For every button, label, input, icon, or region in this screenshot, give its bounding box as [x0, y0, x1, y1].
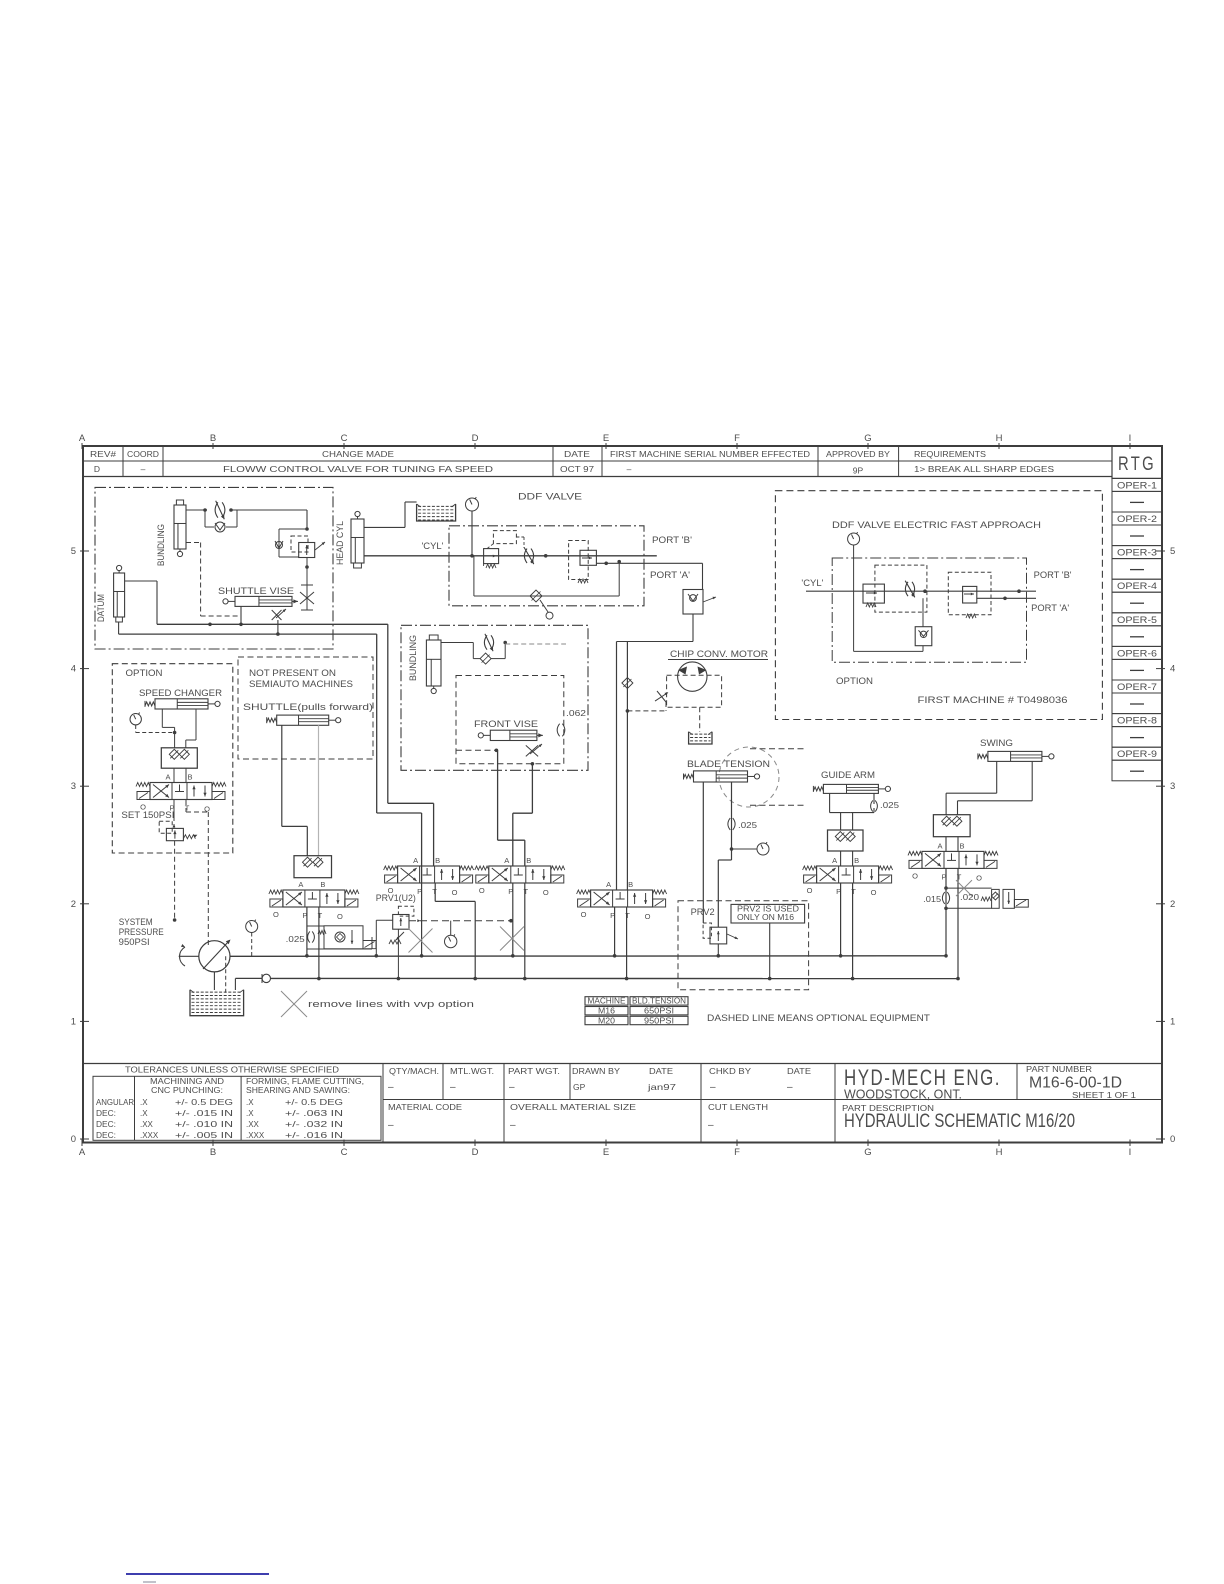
svg-text:A: A [832, 856, 837, 865]
svg-text:DATE: DATE [787, 1067, 811, 1076]
svg-text:T: T [185, 804, 190, 813]
svg-text:WOODSTOCK, ONT.: WOODSTOCK, ONT. [844, 1087, 962, 1102]
svg-text:OPER-3: OPER-3 [1117, 548, 1157, 558]
svg-text:F: F [734, 1147, 740, 1158]
svg-text:A: A [165, 773, 170, 782]
svg-text:–: – [450, 1082, 456, 1093]
svg-text:2: 2 [71, 899, 76, 910]
svg-text:SWING: SWING [980, 738, 1013, 749]
svg-text:B: B [187, 773, 192, 782]
svg-text:OPER-2: OPER-2 [1117, 514, 1157, 524]
svg-text:NOT PRESENT ON: NOT PRESENT ON [249, 668, 336, 678]
svg-text:RTG: RTG [1118, 454, 1156, 475]
svg-text:.XXX: .XXX [246, 1131, 265, 1140]
svg-text:CUT LENGTH: CUT LENGTH [708, 1103, 768, 1112]
svg-text:–: – [509, 1082, 515, 1093]
svg-text:DATE: DATE [649, 1067, 673, 1076]
svg-text:3: 3 [1170, 781, 1175, 792]
svg-text:A: A [413, 856, 418, 865]
svg-text:OPER-4: OPER-4 [1117, 581, 1157, 591]
svg-text:SHEET 1 OF 1: SHEET 1 OF 1 [1072, 1091, 1137, 1100]
svg-text:CHANGE MADE: CHANGE MADE [322, 449, 394, 459]
svg-text:A: A [937, 841, 942, 850]
svg-text:B: B [210, 1147, 216, 1158]
svg-text:O: O [912, 871, 918, 880]
svg-text:OPER-1: OPER-1 [1117, 480, 1157, 490]
svg-text:.025: .025 [738, 820, 757, 830]
svg-text:C: C [341, 1147, 348, 1158]
svg-text:5: 5 [1170, 546, 1175, 557]
svg-text:–: – [388, 1082, 394, 1093]
svg-text:.XX: .XX [140, 1120, 154, 1129]
svg-text:FRONT VISE: FRONT VISE [474, 719, 538, 729]
svg-text:ANGULAR: ANGULAR [96, 1098, 134, 1107]
svg-text:H: H [996, 433, 1003, 444]
svg-text:O: O [273, 910, 279, 919]
svg-text:REQUIREMENTS: REQUIREMENTS [914, 449, 986, 459]
svg-text:COORD: COORD [127, 449, 159, 459]
svg-text:–: – [388, 1120, 394, 1131]
svg-text:OPER-5: OPER-5 [1117, 615, 1157, 625]
svg-text:FLOWW CONTROL VALVE FOR TUNING: FLOWW CONTROL VALVE FOR TUNING FA SPEED [223, 464, 493, 474]
svg-text:O: O [871, 888, 877, 897]
svg-text:ONLY ON M16: ONLY ON M16 [737, 913, 795, 922]
svg-text:–: – [141, 464, 146, 474]
svg-text:BUNDLING: BUNDLING [156, 524, 166, 566]
svg-text:B: B [526, 856, 531, 865]
svg-text:+/- .063 IN: +/- .063 IN [285, 1109, 343, 1118]
svg-text:M20: M20 [598, 1016, 616, 1025]
svg-text:G: G [864, 1147, 871, 1158]
svg-text:PORT 'A': PORT 'A' [1031, 603, 1069, 613]
svg-text:B: B [959, 841, 964, 850]
svg-text:FORMING, FLAME CUTTING,: FORMING, FLAME CUTTING, [246, 1077, 364, 1086]
svg-text:A: A [79, 433, 86, 444]
svg-text:C: C [341, 433, 348, 444]
svg-text:APPROVED BY: APPROVED BY [826, 449, 890, 459]
svg-text:GUIDE ARM: GUIDE ARM [821, 770, 875, 781]
svg-text:.020: .020 [960, 892, 979, 902]
svg-text:+/- .016 IN: +/- .016 IN [285, 1131, 343, 1140]
svg-text:A: A [298, 880, 303, 889]
svg-text:G: G [864, 433, 871, 444]
svg-text:O: O [807, 886, 813, 895]
svg-text:B: B [854, 856, 859, 865]
svg-text:CNC PUNCHING:: CNC PUNCHING: [151, 1086, 223, 1095]
svg-text:CHKD BY: CHKD BY [709, 1067, 752, 1076]
svg-text:.XX: .XX [246, 1120, 260, 1129]
svg-text:BLADE TENSION: BLADE TENSION [687, 759, 770, 770]
svg-text:SHEARING AND SAWING:: SHEARING AND SAWING: [246, 1086, 350, 1095]
svg-text:A: A [606, 880, 611, 889]
svg-text:MACHINING AND: MACHINING AND [150, 1077, 224, 1086]
svg-text:PORT 'B': PORT 'B' [652, 535, 692, 545]
svg-text:HYDRAULIC SCHEMATIC M16/20: HYDRAULIC SCHEMATIC M16/20 [844, 1111, 1075, 1132]
svg-text:REV#: REV# [90, 449, 116, 459]
svg-text:O: O [645, 912, 651, 921]
svg-text:DDF VALVE ELECTRIC FAST APPROA: DDF VALVE ELECTRIC FAST APPROACH [832, 520, 1041, 531]
svg-text:OVERALL MATERIAL SIZE: OVERALL MATERIAL SIZE [510, 1103, 636, 1112]
svg-text:+/- .005 IN: +/- .005 IN [175, 1131, 233, 1140]
svg-text:M16-6-00-1D: M16-6-00-1D [1029, 1075, 1122, 1092]
svg-text:1: 1 [71, 1016, 76, 1027]
svg-text:SHUTTLE VISE: SHUTTLE VISE [218, 586, 294, 596]
svg-text:.X: .X [246, 1109, 254, 1118]
svg-text:FIRST MACHINE SERIAL NUMBER EF: FIRST MACHINE SERIAL NUMBER EFFECTED [610, 449, 810, 459]
svg-text:9P: 9P [853, 466, 864, 476]
svg-text:PRESSURE: PRESSURE [119, 927, 164, 937]
svg-text:HEAD CYL: HEAD CYL [335, 521, 345, 565]
svg-text:DATE: DATE [564, 449, 590, 459]
svg-text:+/- .015 IN: +/- .015 IN [175, 1109, 233, 1118]
svg-text:O: O [581, 910, 587, 919]
svg-text:OPER-7: OPER-7 [1117, 682, 1157, 692]
svg-text:TOLERANCES UNLESS OTHERWISE SP: TOLERANCES UNLESS OTHERWISE SPECIFIED [125, 1065, 339, 1075]
svg-text:DDF VALVE: DDF VALVE [518, 492, 582, 503]
svg-text:+/- .032 IN: +/- .032 IN [285, 1120, 343, 1129]
svg-text:+/- 0.5 DEG: +/- 0.5 DEG [285, 1098, 343, 1107]
svg-text:GP: GP [573, 1082, 586, 1092]
svg-text:E: E [603, 433, 609, 444]
svg-text:MACHINE: MACHINE [588, 997, 626, 1006]
svg-text:QTY/MACH.: QTY/MACH. [389, 1067, 439, 1076]
svg-text:DRAWN BY: DRAWN BY [572, 1067, 621, 1076]
svg-text:0: 0 [1170, 1134, 1175, 1145]
svg-text:B: B [210, 433, 216, 444]
svg-text:CHIP CONV. MOTOR: CHIP CONV. MOTOR [670, 649, 768, 660]
svg-text:A: A [79, 1147, 86, 1158]
svg-text:PRV1(U2): PRV1(U2) [376, 893, 416, 903]
svg-text:A: A [504, 856, 509, 865]
svg-text:B: B [320, 880, 325, 889]
svg-text:DASHED LINE MEANS OPTIONAL EQU: DASHED LINE MEANS OPTIONAL EQUIPMENT [707, 1013, 930, 1024]
svg-text:4: 4 [1170, 664, 1175, 675]
svg-text:DEC:: DEC: [96, 1120, 116, 1129]
svg-text:.X: .X [140, 1098, 148, 1107]
svg-text:SET 150PSI: SET 150PSI [121, 810, 174, 820]
svg-text:O: O [479, 886, 485, 895]
svg-text:I: I [1129, 1147, 1132, 1158]
svg-text:SPEED CHANGER: SPEED CHANGER [139, 688, 223, 698]
svg-text:I: I [1129, 433, 1132, 444]
svg-text:.XXX: .XXX [140, 1131, 159, 1140]
svg-text:PORT 'B': PORT 'B' [1034, 570, 1072, 580]
svg-text:4: 4 [71, 664, 76, 675]
svg-text:M16: M16 [598, 1007, 616, 1016]
svg-text:FIRST MACHINE # T0498036: FIRST MACHINE # T0498036 [918, 695, 1068, 705]
svg-text:O: O [976, 873, 982, 882]
svg-text:OPTION: OPTION [836, 676, 873, 687]
svg-text:–: – [627, 464, 632, 474]
svg-text:950PSI: 950PSI [644, 1016, 674, 1025]
svg-text:B: B [628, 880, 633, 889]
svg-text:'CYL': 'CYL' [422, 541, 444, 551]
svg-text:5: 5 [71, 546, 76, 557]
svg-text:BUNDLING: BUNDLING [408, 635, 418, 681]
svg-text:–: – [710, 1082, 716, 1093]
svg-text:.X: .X [140, 1109, 148, 1118]
svg-text:SHUTTLE(pulls forward): SHUTTLE(pulls forward) [243, 702, 373, 712]
svg-text:D: D [472, 1147, 479, 1158]
svg-text:E: E [603, 1147, 609, 1158]
svg-text:OPTION: OPTION [126, 668, 163, 679]
svg-text:.X: .X [246, 1098, 254, 1107]
svg-text:650PSI: 650PSI [644, 1007, 674, 1016]
svg-text:OPER-6: OPER-6 [1117, 648, 1157, 658]
svg-text:B: B [435, 856, 440, 865]
svg-text:–: – [787, 1082, 793, 1093]
svg-text:1: 1 [1170, 1016, 1175, 1027]
svg-text:DEC:: DEC: [96, 1109, 116, 1118]
svg-text:BLD.TENSION: BLD.TENSION [632, 997, 686, 1006]
svg-text:.025: .025 [880, 800, 899, 810]
svg-text:OPER-8: OPER-8 [1117, 716, 1157, 726]
svg-text:DATUM: DATUM [96, 594, 106, 622]
svg-text:MTL.WGT.: MTL.WGT. [450, 1067, 494, 1076]
svg-text:OCT 97: OCT 97 [560, 464, 594, 474]
svg-text:remove lines with vvp option: remove lines with vvp option [308, 999, 474, 1010]
svg-text:.015: .015 [923, 894, 941, 904]
svg-text:PRV2: PRV2 [691, 907, 715, 917]
svg-text:0: 0 [71, 1134, 76, 1145]
svg-text:O: O [543, 888, 549, 897]
svg-text:–: – [510, 1120, 516, 1131]
svg-text:D: D [94, 464, 100, 474]
svg-text:PART NUMBER: PART NUMBER [1026, 1065, 1092, 1074]
svg-text:DEC:: DEC: [96, 1131, 116, 1140]
svg-text:'CYL': 'CYL' [801, 578, 823, 588]
svg-text:950PSI: 950PSI [119, 937, 150, 947]
svg-text:jan97: jan97 [647, 1082, 677, 1092]
svg-text:H: H [996, 1147, 1003, 1158]
svg-text:OPER-9: OPER-9 [1117, 749, 1157, 759]
svg-text:3: 3 [71, 781, 76, 792]
svg-text:.062: .062 [566, 708, 586, 718]
svg-text:1> BREAK ALL SHARP EDGES: 1> BREAK ALL SHARP EDGES [914, 464, 1054, 474]
svg-text:+/- 0.5 DEG: +/- 0.5 DEG [175, 1098, 233, 1107]
svg-text:O: O [452, 888, 458, 897]
svg-text:MATERIAL CODE: MATERIAL CODE [388, 1103, 462, 1112]
svg-text:2: 2 [1170, 899, 1175, 910]
svg-text:–: – [708, 1120, 714, 1131]
svg-text:PORT 'A': PORT 'A' [650, 570, 690, 580]
svg-text:F: F [734, 433, 740, 444]
svg-text:PART WGT.: PART WGT. [508, 1067, 560, 1076]
svg-text:SEMIAUTO MACHINES: SEMIAUTO MACHINES [249, 679, 353, 689]
svg-text:D: D [472, 433, 479, 444]
svg-text:.025: .025 [286, 934, 305, 944]
svg-text:O: O [337, 912, 343, 921]
svg-text:SYSTEM: SYSTEM [119, 917, 153, 927]
svg-text:+/- .010 IN: +/- .010 IN [175, 1120, 233, 1129]
